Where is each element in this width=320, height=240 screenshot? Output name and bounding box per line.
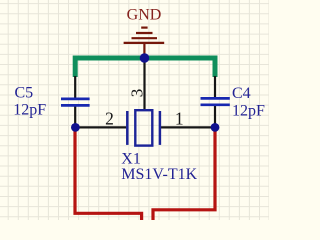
crystal X1 — [127, 110, 160, 145]
wire C4 top lead — [214, 76, 216, 97]
svg-text:X1: X1 — [121, 150, 141, 167]
svg-text:C4: C4 — [232, 85, 251, 102]
sheet background — [0, 0, 269, 220]
svg-text:12pF: 12pF — [232, 103, 265, 120]
wire C4 bottom lead — [214, 106, 216, 129]
svg-text:MS1V-T1K: MS1V-T1K — [121, 166, 197, 183]
svg-text:2: 2 — [105, 109, 114, 129]
wire pin3 vertical — [143, 58, 145, 110]
ground — [124, 28, 165, 57]
capacitor C4 — [201, 98, 230, 104]
svg-text:GND: GND — [127, 7, 162, 24]
wire net left red — [75, 128, 142, 220]
svg-text:1: 1 — [175, 109, 184, 129]
wire pin1 — [161, 126, 215, 128]
wire C5 top lead — [74, 76, 76, 98]
svg-text:3: 3 — [127, 89, 146, 98]
wire C5 bottom lead — [74, 106, 76, 129]
junction C5/pin2 — [71, 123, 80, 132]
junction C4/pin1 — [211, 123, 220, 132]
capacitor C5 — [61, 99, 90, 106]
junction on green wire — [140, 53, 150, 63]
svg-text:C5: C5 — [15, 85, 34, 102]
wire VCC-net green: left vertical, top horizontal, right vertical — [75, 58, 215, 77]
wire pin2 — [75, 126, 126, 128]
wire net right red — [153, 128, 215, 220]
svg-text:12pF: 12pF — [13, 102, 46, 119]
